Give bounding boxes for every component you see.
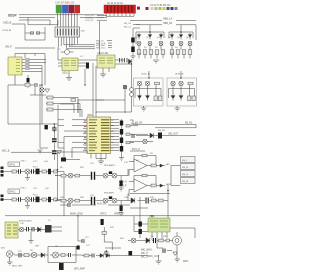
wire c24 drop xyxy=(120,176,122,181)
capacitor C20 xyxy=(27,227,29,231)
diode D14 xyxy=(129,59,132,64)
wire bundle fanout xyxy=(64,45,95,49)
wire resistor rows to IC xyxy=(46,98,82,118)
diode D20 xyxy=(131,198,135,203)
wire opamp io xyxy=(129,162,151,177)
resistor R40 xyxy=(159,199,164,202)
svg-text:SPK AMP L: SPK AMP L xyxy=(104,192,116,195)
label net VBB_1B xyxy=(136,22,196,40)
transistor Q7 xyxy=(137,81,141,85)
svg-text:GND_B: GND_B xyxy=(3,21,12,24)
svg-text:SPK_OUT: SPK_OUT xyxy=(148,255,160,258)
capacitor C19 xyxy=(19,197,21,202)
connector J2 block xyxy=(5,222,18,238)
component M2 black xyxy=(109,196,112,199)
ic U2 regulator xyxy=(62,58,78,71)
wire speaker row B xyxy=(4,199,65,201)
resistor R25 xyxy=(188,82,193,85)
wire U13 nets right xyxy=(25,60,46,86)
resistor R8 xyxy=(24,254,29,257)
capacitor C43 xyxy=(32,197,34,202)
svg-text:MAIN_GND: MAIN_GND xyxy=(70,212,83,215)
capacitor C28 xyxy=(104,250,108,256)
wire second channel row xyxy=(128,200,168,202)
wire xtal feed xyxy=(15,54,45,86)
wire IC bottom link xyxy=(58,152,88,160)
ground group A G2 xyxy=(141,106,146,111)
ground group B G2b xyxy=(175,106,180,111)
svg-text:AUX_IN: AUX_IN xyxy=(97,202,106,205)
wire LED row2 feeds xyxy=(149,71,181,78)
diode D7 xyxy=(138,94,142,101)
label net SIM_IO xyxy=(96,40,112,42)
transistor Q11 xyxy=(179,81,183,85)
diode D2 xyxy=(148,33,151,39)
wire U6 bottom stubs xyxy=(91,154,106,159)
wire rows join xyxy=(63,172,65,216)
wire transistor drop xyxy=(30,87,46,124)
svg-text:HS_R: HS_R xyxy=(182,167,188,169)
diode D6 xyxy=(188,33,191,39)
wire into U6 top xyxy=(60,88,125,113)
wire out right mid xyxy=(136,135,196,137)
capacitor C31 polarized xyxy=(139,229,142,234)
component U7 filter xyxy=(45,225,52,233)
transistor Q2 xyxy=(148,42,152,46)
wire opamp2 loop xyxy=(48,247,76,263)
ground triangle GT3 xyxy=(57,151,62,154)
wire column x133 xyxy=(132,28,134,56)
ground mic G11 xyxy=(156,255,162,264)
resistor pack RN1 xyxy=(47,96,53,99)
wire J1 pin stubs xyxy=(106,13,134,16)
resistor R42 xyxy=(102,232,106,235)
resistor R5 xyxy=(151,184,156,187)
capacitor C23 coupling xyxy=(92,172,95,180)
svg-text:KB_R2: KB_R2 xyxy=(158,130,166,132)
transistor Q23 xyxy=(19,227,23,231)
ground row A G7 xyxy=(25,174,30,181)
ic U6 audio codec body xyxy=(87,117,111,154)
resistor R23 xyxy=(159,96,162,101)
capacitor C15 polarized xyxy=(120,146,123,152)
svg-text:SPK_AMP: SPK_AMP xyxy=(74,268,85,271)
capacitor C11 xyxy=(123,86,127,88)
inductor L3 xyxy=(36,197,40,203)
ic U5 mic amp xyxy=(148,218,170,232)
capacitor C29 xyxy=(92,254,94,258)
diode D5 xyxy=(179,33,182,39)
svg-text:VIB_P: VIB_P xyxy=(5,45,12,48)
wire U3 down bus xyxy=(93,63,96,117)
wire mid link down xyxy=(85,64,132,117)
resistor R22 xyxy=(154,96,157,101)
capacitor C42 bead xyxy=(130,93,134,97)
ground U13 G17 xyxy=(15,75,31,88)
diode D4 xyxy=(170,33,173,39)
svg-text:VLED_A: VLED_A xyxy=(141,73,150,76)
wire keypad column link xyxy=(155,124,196,127)
diode D17 arrow xyxy=(160,184,163,187)
transistor Q14 xyxy=(25,169,30,174)
wire J1 bus line xyxy=(106,15,134,17)
component U16 black xyxy=(101,219,104,225)
capacitor C16 xyxy=(132,134,134,138)
wire cap chain xyxy=(53,124,55,160)
resistor pack RN4 xyxy=(26,58,30,69)
wire opamp feedback xyxy=(134,156,156,166)
ground triangle GT2 xyxy=(173,252,178,255)
svg-text:MIC_N: MIC_N xyxy=(141,256,148,258)
wire U6 right vertical bus xyxy=(121,119,123,155)
label net LCD_D2 xyxy=(85,20,107,22)
resistor R27 xyxy=(192,96,195,101)
capacitor C4 polarized xyxy=(86,63,89,69)
wire feed to U5 xyxy=(140,197,168,238)
capacitor C6 xyxy=(125,58,128,63)
op-amp U4 xyxy=(134,159,147,172)
wire LED row1 rail A xyxy=(136,25,164,44)
wire ear bus xyxy=(130,185,170,201)
resistor pack RN3 xyxy=(47,108,53,111)
resistor R11 xyxy=(137,50,141,55)
wire row2 right xyxy=(108,194,128,201)
resistor R21 xyxy=(155,82,160,85)
resistor R7 xyxy=(42,198,47,201)
svg-text:VIB_OUT: VIB_OUT xyxy=(168,132,179,135)
diode D3 xyxy=(159,33,162,39)
ground row1 right G15 xyxy=(119,186,124,191)
label box SPK1 xyxy=(8,162,20,167)
wire stub column xyxy=(78,216,82,241)
svg-text:8ΩSP: 8ΩSP xyxy=(8,14,17,18)
wire CN1 lower pin bundle xyxy=(59,37,78,49)
capacitor C34 polarized xyxy=(131,38,135,43)
op-amp U15 xyxy=(134,179,147,192)
resistor R41 xyxy=(166,239,169,242)
label MIC red lines xyxy=(141,249,152,259)
capacitor C9 polarized xyxy=(52,139,57,141)
transistor Q6 xyxy=(188,42,192,46)
label net LCD_D1 xyxy=(85,18,107,20)
connector J3 jack row2 xyxy=(181,164,196,170)
wire U13 pins right xyxy=(22,60,25,72)
transistor Q17 xyxy=(68,173,73,178)
wire U6 left nets xyxy=(64,120,83,158)
component U8 bar xyxy=(61,158,66,162)
svg-text:VBB_1A: VBB_1A xyxy=(163,18,172,21)
resistor R48 xyxy=(142,174,147,177)
resistor R30 xyxy=(126,133,130,135)
resistor R9 xyxy=(61,174,66,177)
ic U3 regulator xyxy=(97,55,115,68)
connector J3 jack row3 xyxy=(181,171,196,177)
svg-text:VOL2: VOL2 xyxy=(21,187,27,189)
wire jack feed xyxy=(156,166,180,186)
diode D12 xyxy=(179,94,183,101)
resistor R35 xyxy=(61,199,66,202)
svg-text:SPK AMP R: SPK AMP R xyxy=(104,164,116,167)
label net KEY_C0 xyxy=(124,23,140,25)
resistor R17 xyxy=(176,50,180,55)
svg-text:V1 V2 C B1 B2 GN: V1 V2 C B1 B2 GN xyxy=(150,4,171,7)
capacitor C13 polarized xyxy=(120,129,123,135)
capacitor C7 xyxy=(35,83,37,87)
ground mic G12 xyxy=(175,249,180,262)
diode D22 xyxy=(38,227,41,232)
ground row2 right G16 xyxy=(119,211,124,216)
ground row1 G1 xyxy=(153,60,159,63)
transistor Q19 xyxy=(68,198,73,203)
label net KEY_C1 xyxy=(124,26,140,28)
label extra designators xyxy=(18,47,178,253)
ground U6 G5 xyxy=(119,155,124,161)
svg-text:VRTC: VRTC xyxy=(100,212,107,215)
label net GND_B xyxy=(3,21,25,24)
diode D21 xyxy=(146,238,150,243)
capacitor C37 xyxy=(146,198,148,204)
svg-text:U201: U201 xyxy=(62,72,68,75)
ground loop G14 xyxy=(38,150,43,153)
svg-text:KB_C1: KB_C1 xyxy=(124,26,132,28)
resistor R47 xyxy=(61,254,65,257)
resistor R44 xyxy=(54,170,58,173)
label U6 pin numbers red xyxy=(111,120,114,149)
wire top loop xyxy=(28,18,58,25)
component U11 black xyxy=(45,125,48,129)
capacitor C14 polarized xyxy=(120,138,123,144)
wire LED row1 rail B xyxy=(169,25,193,38)
capacitor C17 xyxy=(19,169,21,174)
component FB2 black xyxy=(48,197,51,202)
label net SIM_CLK xyxy=(96,43,112,45)
ground buzzer G10 xyxy=(7,257,12,265)
inductor L2 xyxy=(36,169,40,175)
transistor Q10 xyxy=(171,81,175,85)
resistor R14 xyxy=(155,50,159,55)
connector pins P2 xyxy=(1,195,4,201)
label box SPK2 xyxy=(8,189,20,194)
wire U6 left bus xyxy=(58,105,64,149)
wire q22 row xyxy=(130,141,153,143)
diode D8 xyxy=(146,94,150,101)
wire group A mesh xyxy=(135,85,161,98)
transistor Q20 xyxy=(103,198,108,203)
transistor Q1 xyxy=(137,42,141,46)
resistor R4 xyxy=(151,164,156,167)
label net MIC_B xyxy=(2,149,52,152)
transistor Q21 xyxy=(131,238,136,243)
transistor Q15 xyxy=(25,197,30,202)
box LED group B xyxy=(167,78,197,106)
resistor R36 xyxy=(75,199,80,202)
capacitor C27 xyxy=(82,239,84,243)
box LED group A xyxy=(134,78,164,106)
capacitor C36 polarized xyxy=(120,206,123,212)
capacitor C40 polarized xyxy=(27,78,30,83)
component FB1 black xyxy=(48,169,51,174)
capacitor C35 polarized xyxy=(131,47,135,53)
transistor Q18b xyxy=(112,173,117,178)
svg-text:KB_C0: KB_C0 xyxy=(124,23,132,25)
svg-text:VBB_1B: VBB_1B xyxy=(163,22,172,25)
wire opamp2 io xyxy=(50,254,82,256)
wire loop lower drop xyxy=(40,124,48,148)
transistor Q20b xyxy=(112,198,117,203)
transistor Q3 xyxy=(159,42,163,46)
connector J3 jack row1 xyxy=(181,157,196,163)
wire mic lower xyxy=(157,241,172,251)
capacitor C26 xyxy=(68,203,70,207)
label net SIM_VCC xyxy=(96,48,112,50)
label designators scatter xyxy=(20,37,190,252)
connector pins P1 xyxy=(1,167,4,177)
wire row 203 xyxy=(60,204,130,206)
transistor Q5 xyxy=(179,42,183,46)
label net VBB_1A xyxy=(130,18,196,21)
wire lcd drop xyxy=(99,21,101,55)
wire group B mesh xyxy=(169,85,195,98)
wire buzzer out xyxy=(82,255,148,257)
svg-text:HS_G: HS_G xyxy=(182,174,188,176)
capacitor C10 polarized xyxy=(52,151,57,153)
label net RCV xyxy=(130,148,145,151)
capacitor C39 xyxy=(69,253,71,257)
capacitor C24 polarized xyxy=(120,181,123,187)
capacitor C41 bead xyxy=(130,88,134,92)
svg-text:SPK2: SPK2 xyxy=(9,191,16,194)
ground column G13 xyxy=(131,56,136,59)
wire opamp2 io wires xyxy=(129,182,151,197)
capacitor C18 xyxy=(32,169,34,174)
diode D11 xyxy=(171,94,175,101)
ground bt G9 xyxy=(29,231,34,243)
svg-text:VREF_B: VREF_B xyxy=(114,212,124,215)
ground U2 G4 xyxy=(66,71,72,81)
diode D19 double arrow xyxy=(100,254,109,258)
svg-text:LCD_D2: LCD_D2 xyxy=(85,20,94,22)
diode D16 arrow xyxy=(160,164,163,167)
diode D1 xyxy=(137,33,140,39)
transistor Q4 xyxy=(170,42,174,46)
label net VIB xyxy=(5,45,55,48)
wire mic mesh xyxy=(104,227,121,250)
capacitor C38 xyxy=(163,249,165,253)
label U6 left pin numbers red xyxy=(84,121,86,150)
label net LCD_D0 xyxy=(85,15,107,17)
wire right short bus xyxy=(130,207,148,209)
svg-text:HPR: HPR xyxy=(166,184,171,186)
wire loop frame xyxy=(8,85,58,124)
svg-text:SIM_VCC: SIM_VCC xyxy=(96,48,106,50)
svg-text:SPK1: SPK1 xyxy=(9,164,16,167)
ic U13 eeprom xyxy=(8,57,22,75)
ground row B G8 xyxy=(25,202,30,209)
wire speaker row A xyxy=(4,171,65,173)
transistor Q8 xyxy=(145,81,149,85)
component U14 black xyxy=(77,246,80,250)
resistor R19 xyxy=(188,50,192,55)
wire resistor outputs row1 xyxy=(139,54,190,58)
wire row1 right xyxy=(108,169,128,176)
svg-text:MIC_BIAS: MIC_BIAS xyxy=(141,249,152,252)
component U10 bar xyxy=(59,263,64,270)
wire left loop frame xyxy=(25,24,45,40)
wire opamp2 feedback xyxy=(134,176,156,186)
wire U5 pins down xyxy=(152,228,195,240)
svg-text:VBT: VBT xyxy=(35,245,40,247)
wire row1 xyxy=(55,175,103,177)
buzzer BZ1 xyxy=(6,251,12,257)
connector CN1 color-coded block xyxy=(56,5,81,14)
resistor R20 xyxy=(159,239,164,242)
wire U6 right pin stubs xyxy=(111,120,120,151)
svg-text:HS_M: HS_M xyxy=(182,181,188,183)
transistor U9 xyxy=(53,252,59,258)
transistor Q16 xyxy=(31,252,36,257)
resistor R12 xyxy=(143,50,147,55)
wire U2 left pins xyxy=(58,47,62,66)
capacitor C32 xyxy=(154,238,156,243)
wire rows left bus xyxy=(55,152,58,201)
label net SIM_RST xyxy=(96,45,112,47)
component M1 black xyxy=(109,171,112,174)
wire c36 drop xyxy=(120,201,122,206)
svg-text:HS_L: HS_L xyxy=(182,160,188,162)
capacitor C21 xyxy=(32,227,34,231)
transistor Q18 xyxy=(103,173,108,178)
resistor R18 xyxy=(182,50,186,55)
connector J3 jack row4 xyxy=(181,178,196,184)
svg-text:MIC1: MIC1 xyxy=(183,261,189,263)
wire bt row xyxy=(18,227,62,231)
resistor R6 xyxy=(42,170,47,173)
resistor R45 xyxy=(12,198,17,201)
connector CN1 shield box xyxy=(55,27,80,37)
resistor R10 xyxy=(84,254,89,257)
svg-text:VOL1: VOL1 xyxy=(21,160,27,162)
resistor R1 xyxy=(25,84,30,87)
svg-text:AV 10 21 32 42: AV 10 21 32 42 xyxy=(107,2,123,5)
diode D9 red square xyxy=(137,7,140,10)
capacitor C25 coupling xyxy=(92,197,95,205)
resistor R13 xyxy=(149,50,153,55)
microphone MK1 xyxy=(173,232,182,249)
resistor R39 xyxy=(152,199,157,202)
wire buzzer row xyxy=(13,254,48,255)
wire mic bias xyxy=(134,216,148,232)
capacitor C30 polarized xyxy=(139,222,142,227)
resistor R16 xyxy=(170,50,174,55)
diode D15 xyxy=(150,133,153,138)
wire CN1 pin bundle xyxy=(58,13,78,27)
wire row1 to resistor rail xyxy=(139,46,190,50)
wire mic row xyxy=(128,240,173,242)
resistor R43 xyxy=(12,170,17,173)
wire U3 right side xyxy=(115,60,132,64)
capacitor C8 xyxy=(52,126,57,132)
connector J1 red block xyxy=(104,5,136,13)
resistor R15 xyxy=(161,50,165,55)
inductor L1 xyxy=(158,133,162,139)
ground triangle GT1 xyxy=(45,89,50,92)
resistor pack RN2 xyxy=(47,102,53,105)
crystal Y1 xyxy=(61,50,74,55)
wire U6 left pin stubs xyxy=(83,120,87,151)
svg-text:CHG BT SIM LCD: CHG BT SIM LCD xyxy=(55,2,75,5)
svg-text:EP300 JACK: EP300 JACK xyxy=(19,219,32,222)
capacitor C22 xyxy=(19,253,21,257)
